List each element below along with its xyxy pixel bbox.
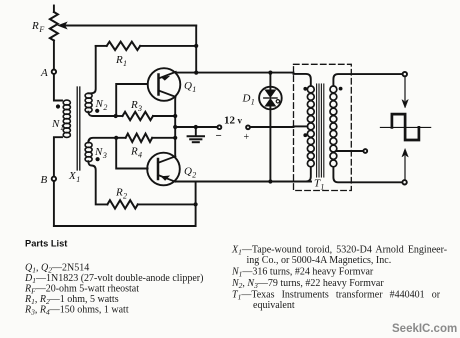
resistor R4	[116, 137, 125, 139]
svg-text:1: 1	[192, 85, 196, 94]
svg-text:N: N	[94, 146, 103, 158]
diode D1 (double-anode clipper)	[259, 73, 282, 182]
rheostat RF wiper arrow	[58, 22, 196, 28]
wire Q2 base	[116, 138, 147, 169]
junction R4 right	[173, 136, 177, 140]
svg-text:1: 1	[320, 183, 324, 192]
core X1	[77, 87, 80, 170]
wire bottom rail	[54, 182, 196, 227]
resistor R3	[116, 115, 123, 117]
svg-text:2: 2	[192, 171, 196, 180]
rheostat RF top lead	[53, 6, 55, 13]
svg-text:3: 3	[102, 151, 107, 160]
label A	[40, 67, 48, 79]
junction R1 right	[194, 44, 198, 48]
svg-text:1: 1	[60, 123, 64, 132]
wire T1 secondary bottom lead	[333, 167, 402, 182]
svg-text:+: +	[244, 132, 250, 143]
waveform baseline	[380, 126, 430, 128]
svg-text:−: −	[216, 130, 222, 142]
junction top rail	[194, 71, 198, 75]
junction 12v rail	[173, 125, 177, 129]
wire Q2 emitter rail	[175, 181, 311, 183]
terminal output top	[403, 72, 407, 76]
polarity dot T1 primary top	[303, 87, 307, 91]
label RF	[31, 20, 44, 34]
wire T1 primary bottom lead	[294, 167, 311, 181]
svg-text:2: 2	[103, 103, 107, 112]
resistor R1	[96, 45, 107, 47]
label Q1	[184, 80, 196, 94]
junction base node Q2	[114, 136, 118, 140]
wire N3 bottom down to R2	[88, 161, 107, 204]
svg-text:1: 1	[123, 59, 127, 68]
junction D1 bottom	[268, 179, 272, 183]
svg-text:N: N	[95, 98, 104, 110]
svg-text:1: 1	[76, 175, 80, 184]
svg-text:Q: Q	[184, 80, 192, 92]
label R2	[115, 187, 127, 201]
polarity dot N1	[56, 104, 60, 108]
label R1	[115, 54, 127, 68]
junction base node Q1	[114, 114, 118, 118]
wire Q1 emitter top rail	[176, 72, 294, 74]
polarity dot N2	[95, 109, 99, 113]
winding T1 secondary	[330, 86, 337, 167]
svg-text:N2, N3—79 turns, #22 heavy For: N2, N3—79 turns, #22 heavy Formvar	[231, 278, 384, 290]
svg-text:R: R	[130, 146, 138, 158]
polarity dot T1 secondary top	[339, 87, 343, 91]
svg-text:R: R	[130, 99, 138, 111]
svg-text:Q: Q	[184, 166, 192, 178]
svg-text:v: v	[238, 116, 243, 126]
label B	[41, 174, 48, 186]
svg-text:12: 12	[224, 115, 236, 127]
node A	[52, 70, 56, 74]
svg-text:1: 1	[251, 98, 255, 107]
svg-text:SeekIC.com: SeekIC.com	[392, 323, 457, 335]
transistor Q1	[148, 68, 181, 101]
transistor Q2	[147, 153, 180, 186]
label Q2	[184, 166, 196, 180]
wire 12v rail	[175, 126, 217, 128]
polarity dot T1 primary lower	[303, 133, 307, 137]
arrow from bottom terminal	[402, 149, 408, 179]
svg-text:N: N	[51, 118, 60, 130]
svg-text:Parts List: Parts List	[25, 239, 67, 249]
wire RF bottom to node A	[53, 41, 55, 70]
svg-text:ing Co., or 5000-4A Magnetics,: ing Co., or 5000-4A Magnetics, Inc.	[247, 255, 392, 266]
junction D1 top	[268, 71, 272, 75]
winding N1	[63, 100, 70, 137]
label minus	[216, 130, 222, 142]
wire node A to N1 top	[54, 74, 62, 101]
junction ground stub	[194, 125, 198, 129]
terminal tap output	[363, 149, 367, 153]
svg-text:R: R	[115, 54, 123, 66]
wire node B down to bottom rail	[53, 181, 55, 226]
junction R3 right	[173, 114, 177, 118]
terminal 12v minus	[218, 125, 222, 129]
wire plus terminal to T1 center tap	[250, 126, 294, 128]
wire N3 top to base node	[88, 138, 116, 143]
label D1	[242, 93, 255, 107]
svg-text:D: D	[242, 93, 251, 105]
label N2	[95, 98, 108, 112]
wire R1 left down to N2 top	[88, 46, 95, 93]
label 12 v	[224, 115, 243, 127]
rheostat RF	[50, 12, 58, 41]
svg-text:R: R	[115, 187, 123, 199]
svg-text:B: B	[41, 174, 48, 186]
svg-text:equivalent: equivalent	[253, 300, 295, 311]
label R3	[130, 99, 142, 113]
svg-text:F: F	[38, 25, 44, 34]
winding N3	[85, 142, 92, 161]
wire T1 primary center tap	[294, 125, 308, 127]
wire Q1 collector down	[174, 97, 176, 116]
label plus	[244, 132, 250, 143]
svg-text:N1—316 turns, #24 heavy Formva: N1—316 turns, #24 heavy Formvar	[231, 267, 374, 279]
arrow from top terminal	[402, 78, 408, 108]
wire T1 secondary tap	[337, 150, 364, 152]
svg-text:A: A	[40, 67, 48, 79]
svg-text:3: 3	[137, 104, 142, 113]
terminal output bottom	[402, 180, 406, 184]
junction R2 right	[194, 202, 198, 206]
parts list right column	[231, 245, 447, 312]
node B	[52, 177, 56, 181]
svg-text:R3, R4—150 ohms, 1 watt: R3, R4—150 ohms, 1 watt	[24, 305, 129, 317]
svg-text:2: 2	[123, 192, 127, 201]
label N3	[94, 146, 107, 160]
dashed enclosure T1	[294, 64, 352, 190]
wire top rail from RF wiper corner down	[195, 26, 197, 73]
wire T1 primary top lead	[294, 74, 311, 86]
parts list left column	[24, 263, 203, 317]
wire N1 bottom to node B	[54, 137, 62, 176]
winding N2	[85, 93, 92, 112]
wire N2 bottom to base node	[88, 112, 115, 116]
label R4	[130, 146, 142, 160]
polarity dot N3	[96, 157, 100, 161]
ground	[188, 127, 204, 142]
winding T1 primary	[307, 86, 314, 167]
wire T1 secondary top lead	[333, 74, 402, 86]
wire Q1 base	[116, 84, 147, 116]
terminal 12v plus	[246, 125, 250, 129]
waveform square wave	[392, 114, 419, 140]
core T1	[317, 84, 324, 177]
resistor R2	[107, 200, 137, 208]
label N1	[51, 118, 64, 132]
label T1	[314, 178, 324, 192]
wire collector rail Q1-Q2	[174, 116, 176, 156]
label X1	[68, 170, 80, 184]
svg-text:R: R	[31, 20, 39, 32]
svg-text:4: 4	[138, 151, 142, 160]
